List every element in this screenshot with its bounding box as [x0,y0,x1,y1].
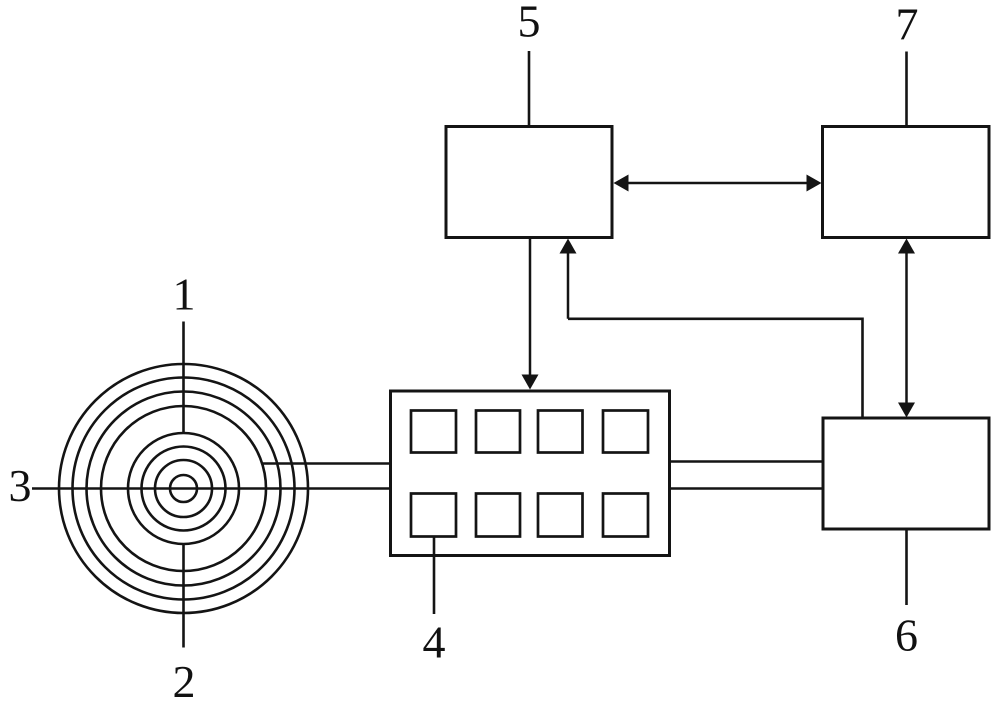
wire coil to block 4 upper [262,462,390,465]
wire horizontal axis (label 3 leader to block 4) [32,487,390,490]
arrow box7-box6 double vertical [905,252,908,404]
wire leader label 6 [905,529,908,605]
coil circle r3 [142,447,226,531]
coil circle r6 [87,392,281,586]
block 4 cell row1 col1 [411,411,456,453]
block 4 cell row2 col4 [603,494,648,537]
block 4 cell row1 col3 [538,411,583,453]
coil circle r8 (outermost) [59,364,308,613]
box U7 (block 7) [823,127,990,238]
wire vertical axis bottom (label 2 leader) [182,544,185,648]
coil circle r5 [101,406,266,571]
block 4 cell row1 col2 [476,411,520,453]
block 4 cell row1 col4 [603,411,648,453]
svg-text:2: 2 [173,656,196,707]
wire leader label 5 [528,51,531,126]
coil circle r2 [155,460,212,517]
block 4 cell row2 col1 [411,494,456,537]
coil circle r1 (innermost) [170,475,197,502]
block 4 cell row2 col3 [538,494,583,537]
wire leader label 7 [905,52,908,127]
svg-text:3: 3 [9,460,32,511]
arrow box5-box7 double horizontal [627,182,808,185]
box U5 (block 5) [446,127,612,238]
svg-text:6: 6 [895,610,918,661]
box U4 (block 4 outer) [391,391,670,556]
block 4 cell row2 col2 [476,494,520,537]
coil circle r7 [73,378,295,600]
arrow elbow to box5 (up) [567,252,570,319]
arrow box5 to block4 (down) [529,238,532,376]
svg-text:1: 1 [173,269,196,320]
wire leader label 4 [433,537,436,615]
wire box 6 top to elbow [568,319,863,418]
svg-text:7: 7 [896,0,919,50]
wire vertical axis top (label 1 leader) [182,322,185,434]
wire block 4 to box 6 lower [670,487,822,490]
box U6 (block 6) [823,418,989,529]
svg-text:4: 4 [423,617,446,668]
coil circle r4 [128,433,239,544]
wire block 4 to box 6 upper [670,460,822,463]
svg-text:5: 5 [518,0,541,47]
